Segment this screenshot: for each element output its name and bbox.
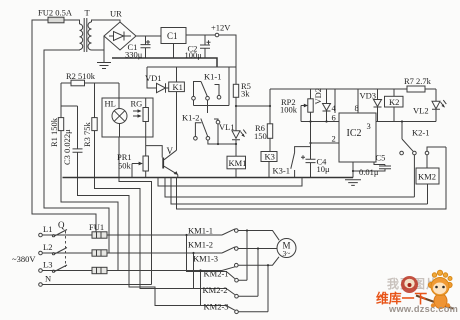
photoresistor RG	[133, 98, 148, 122]
contact KM2-2	[192, 247, 259, 298]
diode VD1	[145, 67, 169, 93]
bridge rectifier UR	[104, 22, 136, 50]
wire primary bottom to P2 bus	[44, 50, 109, 253]
svg-text:HL: HL	[105, 99, 116, 109]
fuse FU1 b	[92, 250, 107, 256]
wire fuse to transformer primary	[64, 20, 80, 24]
potentiometer RP2 100k	[280, 89, 313, 122]
svg-text:V: V	[167, 146, 174, 156]
resistor R1 150k	[49, 117, 64, 147]
wire L1 row	[42, 234, 222, 236]
ground below bridge	[97, 36, 111, 69]
fuse FU1 c	[92, 267, 107, 273]
transformer T core	[84, 18, 87, 52]
label FU2 0.5A	[38, 8, 73, 18]
capacitor C1 330u	[141, 36, 151, 58]
contact KM1-1	[188, 226, 279, 241]
svg-text:K1: K1	[173, 82, 183, 92]
svg-text:C3 0.022μ: C3 0.022μ	[62, 129, 72, 165]
resistor R7 2.7k	[404, 76, 432, 92]
potentiometer PR1 50k	[117, 152, 148, 178]
wire secondary bottom to bridge left	[92, 49, 105, 51]
watermark stamp	[401, 276, 418, 293]
svg-text:6: 6	[332, 113, 336, 123]
svg-text:UR: UR	[110, 9, 122, 19]
contactor coil KM2	[416, 168, 439, 204]
resistor R2 510k	[66, 71, 96, 86]
svg-text:8: 8	[355, 103, 359, 113]
capacitor C2 100u	[200, 35, 211, 58]
wire regulator bottom	[173, 44, 175, 59]
svg-text:N: N	[45, 274, 51, 284]
svg-text:K1-2: K1-2	[182, 113, 199, 123]
transformer T secondary coil	[88, 22, 91, 50]
svg-text:KM2-1: KM2-1	[204, 269, 229, 279]
wire N row	[42, 284, 151, 286]
transformer T primary coil	[80, 24, 83, 50]
wire pin3 output rail	[367, 121, 437, 131]
wire P3 R1 bottom to L3 row	[61, 131, 118, 271]
node N terminal	[39, 274, 51, 287]
fuse FU1 a	[92, 232, 107, 238]
pin 2	[309, 134, 339, 145]
zener VD3	[360, 89, 382, 122]
regulator U1 box labelled C1	[161, 28, 186, 44]
svg-text:K1-1: K1-1	[204, 72, 221, 82]
wire P6 lamp bottom routing to N row	[119, 124, 152, 285]
contact KM2-3	[199, 264, 269, 314]
pin 8	[355, 89, 359, 113]
label C1 330u	[125, 42, 143, 60]
svg-text:KM1-2: KM1-2	[188, 240, 213, 250]
node L1 terminal	[39, 224, 53, 237]
capacitor C4 10u	[301, 122, 330, 178]
wire regulator output to +12V	[186, 35, 236, 84]
svg-text:R3 75k: R3 75k	[82, 121, 92, 147]
contact KM2-1	[185, 229, 248, 282]
svg-text:KM2: KM2	[418, 172, 436, 182]
svg-text:KM1: KM1	[229, 158, 247, 168]
pin 4	[332, 89, 337, 113]
wire link y197	[165, 178, 414, 198]
svg-text:50k: 50k	[118, 161, 132, 171]
LED VL1	[219, 122, 246, 156]
pin 6	[332, 113, 336, 123]
contact K1-2	[182, 113, 236, 145]
wire RG bottom to PR1 top	[145, 122, 147, 157]
label UR	[110, 9, 122, 19]
svg-text:Q: Q	[58, 220, 65, 230]
wire ground bus y177.5	[63, 177, 354, 179]
wire y106 to R6	[235, 105, 270, 107]
optocoupler HL RG box	[102, 98, 153, 137]
contact KM1-2	[188, 240, 277, 254]
svg-text:10μ: 10μ	[317, 164, 331, 174]
wire P4 C3 bottom routing	[78, 152, 228, 305]
wire R3 column	[94, 83, 96, 118]
wire base feed y145.6	[146, 146, 163, 158]
svg-text:3k: 3k	[241, 89, 250, 99]
svg-text:KM2-2: KM2-2	[203, 285, 228, 295]
label T	[85, 8, 91, 18]
watermark site name	[376, 291, 427, 306]
wire C3 branch	[61, 106, 78, 149]
svg-text:KM1-1: KM1-1	[188, 226, 213, 236]
label C2 100u	[185, 44, 203, 60]
wire +12V rail y89	[270, 88, 436, 90]
svg-text:C5: C5	[376, 153, 386, 163]
wire L2 row	[42, 252, 222, 254]
svg-text:3~: 3~	[283, 249, 291, 258]
svg-text:~380V: ~380V	[12, 254, 36, 264]
relay coil K2	[385, 89, 404, 122]
label RG	[131, 99, 143, 109]
contact KM1-3	[193, 254, 279, 271]
capacitor C3 0.022u	[62, 129, 83, 165]
watermark url	[388, 304, 458, 314]
IC2 555 box	[339, 113, 376, 162]
svg-text:VD3: VD3	[360, 91, 377, 101]
svg-text:100k: 100k	[280, 105, 298, 115]
resistor R5 3k	[233, 81, 251, 131]
svg-text:K3: K3	[265, 152, 275, 162]
label HL	[105, 99, 116, 109]
ground bus top y58	[112, 58, 217, 67]
contact K2-1	[400, 120, 446, 197]
svg-text:VD2: VD2	[313, 88, 323, 105]
watermark mascot	[416, 270, 453, 308]
lamp HL	[112, 83, 127, 124]
svg-text:3: 3	[367, 121, 371, 131]
node L2 terminal	[39, 242, 53, 255]
wire secondary top to bridge	[92, 20, 121, 22]
svg-text:T: T	[85, 8, 91, 18]
svg-text:2: 2	[332, 134, 336, 144]
svg-text:KM1-3: KM1-3	[193, 254, 218, 264]
svg-text:L1: L1	[43, 224, 52, 234]
wire link y209	[177, 147, 447, 209]
relay coil K3	[261, 152, 277, 178]
svg-text:C1: C1	[167, 31, 178, 41]
svg-text:R1 150k: R1 150k	[49, 117, 59, 147]
svg-text:4: 4	[332, 103, 337, 113]
wire node y67	[147, 66, 236, 68]
label FU1	[89, 222, 104, 232]
resistor R3 75k	[82, 118, 97, 147]
svg-text:+12V: +12V	[211, 23, 231, 33]
label 380V	[12, 254, 36, 264]
watermark faded text	[387, 276, 439, 291]
svg-text:R2 510k: R2 510k	[66, 71, 96, 81]
svg-text:IC2: IC2	[347, 128, 362, 139]
wire threshold node y121.5	[301, 120, 339, 122]
wire bridge output to regulator	[136, 35, 161, 37]
svg-text:R7 2.7k: R7 2.7k	[404, 76, 432, 86]
svg-text:L2: L2	[43, 242, 52, 252]
svg-text:RG: RG	[131, 99, 143, 109]
node L3 terminal	[39, 260, 53, 273]
node +12V terminal	[211, 23, 231, 37]
wire link y204	[171, 178, 428, 205]
fuse FU2	[48, 17, 64, 23]
contact K1-1	[192, 67, 229, 113]
contact K3-1	[273, 147, 311, 178]
svg-text:www.dzsc.com: www.dzsc.com	[388, 304, 458, 314]
svg-text:VL2: VL2	[413, 106, 429, 116]
svg-text:FU2 0.5A: FU2 0.5A	[38, 8, 73, 18]
svg-text:K3-1: K3-1	[273, 166, 290, 176]
svg-text:K2: K2	[389, 97, 399, 107]
transistor V	[163, 146, 178, 178]
resistor R6 150	[254, 89, 273, 152]
wire left bus P1 from fuse FU2	[32, 20, 96, 235]
motor M	[277, 239, 296, 259]
svg-text:150: 150	[254, 131, 267, 141]
capacitor C5 0.01u pin5	[352, 153, 391, 178]
svg-text:KM2-3: KM2-3	[204, 302, 229, 312]
wire R1 column	[60, 83, 62, 118]
node hook terminal	[214, 119, 220, 145]
wire L3 row	[42, 270, 222, 272]
svg-text:FU1: FU1	[89, 222, 104, 232]
zener VD2	[313, 88, 331, 122]
LED VL2	[413, 89, 446, 122]
svg-text:VD1: VD1	[145, 73, 162, 83]
svg-text:0.01μ: 0.01μ	[359, 167, 379, 177]
contactor coil KM1	[227, 156, 246, 177]
svg-text:K2-1: K2-1	[412, 128, 429, 138]
svg-text:L3: L3	[43, 260, 52, 270]
switch Q	[52, 220, 67, 272]
wire link y186	[158, 178, 302, 187]
svg-text:100μ: 100μ	[185, 50, 203, 60]
wire R2 rail y83	[61, 82, 119, 84]
wire P5 R3 bottom routing	[95, 131, 228, 289]
relay coil K1	[169, 67, 185, 150]
ground IC2 pin1	[345, 162, 361, 185]
